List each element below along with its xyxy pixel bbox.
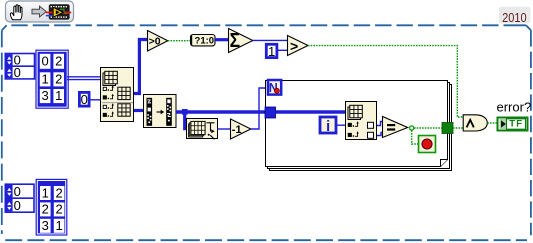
Array Size node [187, 119, 218, 140]
toolbar VI-snippet film icon [46, 4, 71, 19]
svg-text:Σ: Σ [230, 30, 241, 52]
svg-text:2: 2 [55, 202, 62, 217]
wire: ?1:0 to sum (1D int array) [215, 38, 229, 41]
wires: Index Array 2 outs to = [377, 122, 383, 126]
numeric constant 1 [266, 44, 277, 59]
svg-text:2: 2 [55, 54, 62, 69]
wire: i to Index Array 2 [337, 124, 346, 126]
svg-text:3: 3 [41, 88, 48, 103]
wire: Sort to tunnel (1D array) with junction [176, 110, 265, 113]
left tunnel (blue) [265, 107, 276, 118]
i iteration terminal [320, 117, 336, 135]
svg-text:0: 0 [14, 184, 21, 199]
svg-text:2: 2 [42, 202, 49, 217]
toolbar pan-hand icon [10, 5, 22, 20]
N count terminal [268, 80, 281, 95]
comparison >0 node [148, 31, 168, 52]
svg-text:2010: 2010 [502, 10, 527, 25]
svg-text:3: 3 [42, 218, 49, 233]
svg-text:>: > [290, 38, 298, 54]
wire: tunnel into loop to Index Array 2 [276, 110, 347, 113]
Index Array node U2 (in loop) [346, 102, 377, 140]
wire: junction down to Array Size [185, 112, 187, 129]
svg-text:1: 1 [55, 88, 62, 103]
array constant A2 (bottom-left) data grid [36, 179, 67, 235]
wire: 2D array A1 to Index Array [67, 77, 101, 80]
wire: Array Size to decrement [218, 128, 231, 130]
array constant A1 (top-left) index control [5, 53, 34, 81]
wire: 1 to > [278, 49, 288, 51]
for loop frame (stacked pages) [266, 81, 452, 171]
wire: sigma to > [253, 39, 288, 41]
svg-text:error?: error? [497, 99, 532, 114]
wire: >0 to ?1:0 (boolean) [168, 40, 191, 42]
svg-text:1: 1 [268, 44, 275, 59]
svg-text:TF: TF [509, 119, 523, 130]
Index Array node U1 [101, 68, 134, 122]
svg-text:1: 1 [42, 185, 49, 200]
Add Array Elements node (sigma) [229, 29, 253, 53]
svg-text:0: 0 [41, 54, 48, 69]
wire: Index Array out2 to Sort [134, 109, 144, 112]
svg-text:2: 2 [55, 72, 62, 87]
wire: -1 up to N terminal [251, 88, 267, 129]
wire: AND to error? indicator [487, 122, 496, 124]
wire: = to right tunnel (boolean) [414, 127, 442, 129]
index glyph rows [103, 87, 106, 116]
Sort 1D Array node [144, 95, 177, 128]
wire: 0 to Index Array index input [91, 99, 102, 101]
svg-text:0: 0 [14, 198, 21, 213]
svg-text:-1: -1 [232, 124, 242, 136]
wire: Index Array out1 up to >0 [134, 40, 148, 94]
comparison > node [288, 36, 309, 56]
right tunnel (green) [442, 123, 453, 134]
output sub-array glyphs [118, 87, 130, 116]
decrement -1 node [231, 119, 251, 139]
wire: junction down to stop terminal [412, 130, 419, 144]
boolean indicator TF [498, 118, 528, 131]
svg-text:2: 2 [55, 185, 62, 200]
2D array glyph [103, 73, 116, 86]
toolbar arrow icon [32, 6, 46, 17]
svg-text:0: 0 [81, 92, 88, 107]
numeric constant 0 [79, 92, 89, 107]
2010 version tag [499, 7, 531, 25]
AND gate [463, 115, 487, 131]
svg-text:i: i [326, 119, 330, 135]
boolean junction dot [410, 126, 414, 130]
svg-text:0: 0 [14, 65, 21, 80]
array constant A1 (top-left) data grid [36, 50, 68, 108]
wire: tunnel to AND (boolean) [453, 127, 463, 129]
separator [102, 102, 133, 104]
junction dot [182, 109, 188, 115]
equal? node [383, 117, 408, 138]
svg-text:1: 1 [41, 72, 48, 87]
svg-text:>0: >0 [149, 36, 161, 48]
array constant A2 (bottom-left) index control [5, 184, 34, 213]
svg-text:?1:0: ?1:0 [195, 35, 215, 46]
loop conditional (stop) terminal [419, 136, 436, 153]
wire: > to AND (boolean, across top and down) [308, 46, 463, 117]
Boolean to (0,1) node ?1:0 [191, 35, 216, 47]
svg-text:1: 1 [55, 218, 62, 233]
toolbar [6, 1, 74, 22]
